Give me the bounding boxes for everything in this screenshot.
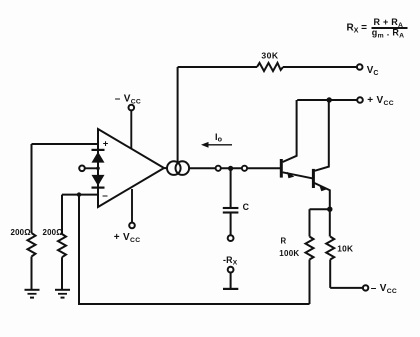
svg-text:R: R	[281, 236, 287, 245]
resistor 200ohm right	[43, 228, 66, 290]
svg-text:200Ω: 200Ω	[43, 228, 63, 237]
wire output with jumper terminals	[189, 166, 280, 171]
capacitor C	[223, 169, 250, 241]
transistor Q2	[313, 100, 329, 206]
terminal at diode midpoint	[79, 166, 100, 172]
svg-text:C: C	[243, 202, 250, 212]
svg-text:10K: 10K	[337, 244, 353, 254]
+Vcc supply pin of op-amp	[114, 189, 141, 244]
resistor 30K	[257, 50, 283, 71]
node emitter junction	[310, 207, 333, 237]
wire top rail to Vc	[178, 66, 357, 68]
-Vcc supply pin of op-amp	[115, 93, 141, 148]
resistor R 100K	[279, 236, 313, 304]
diode D2 (pointing down, on op-amp input edge)	[92, 175, 105, 188]
svg-text:200Ω: 200Ω	[11, 228, 31, 237]
op-amp U1	[98, 129, 164, 207]
port -Rx	[223, 255, 238, 289]
ground right	[55, 290, 70, 298]
+Vcc rail top right	[297, 95, 394, 107]
current source U2 (two interlocking circles)	[164, 161, 190, 175]
svg-text:30K: 30K	[261, 50, 279, 60]
svg-text:Io: Io	[215, 132, 223, 144]
Io arrow	[201, 132, 232, 148]
svg-text:+: +	[103, 139, 109, 150]
wire + input from left resistor	[32, 144, 99, 233]
terminal -Vcc bottom right	[330, 283, 397, 295]
diode D1 (pointing up, on op-amp input edge)	[92, 144, 105, 195]
resistor 10K	[326, 237, 353, 288]
wire - input node	[62, 192, 98, 234]
svg-text:–: –	[102, 190, 108, 201]
formula Rx = (R+RA)/(gm.RA)	[347, 17, 408, 39]
terminal Vc	[357, 64, 379, 77]
resistor 200ohm left	[11, 228, 36, 290]
wire bottom feedback from - node to R bottom	[79, 195, 310, 304]
transistor Q1	[281, 100, 312, 178]
ground left	[25, 290, 40, 298]
wire vertical from top rail down to current source	[177, 67, 179, 162]
svg-text:100K: 100K	[279, 249, 299, 258]
